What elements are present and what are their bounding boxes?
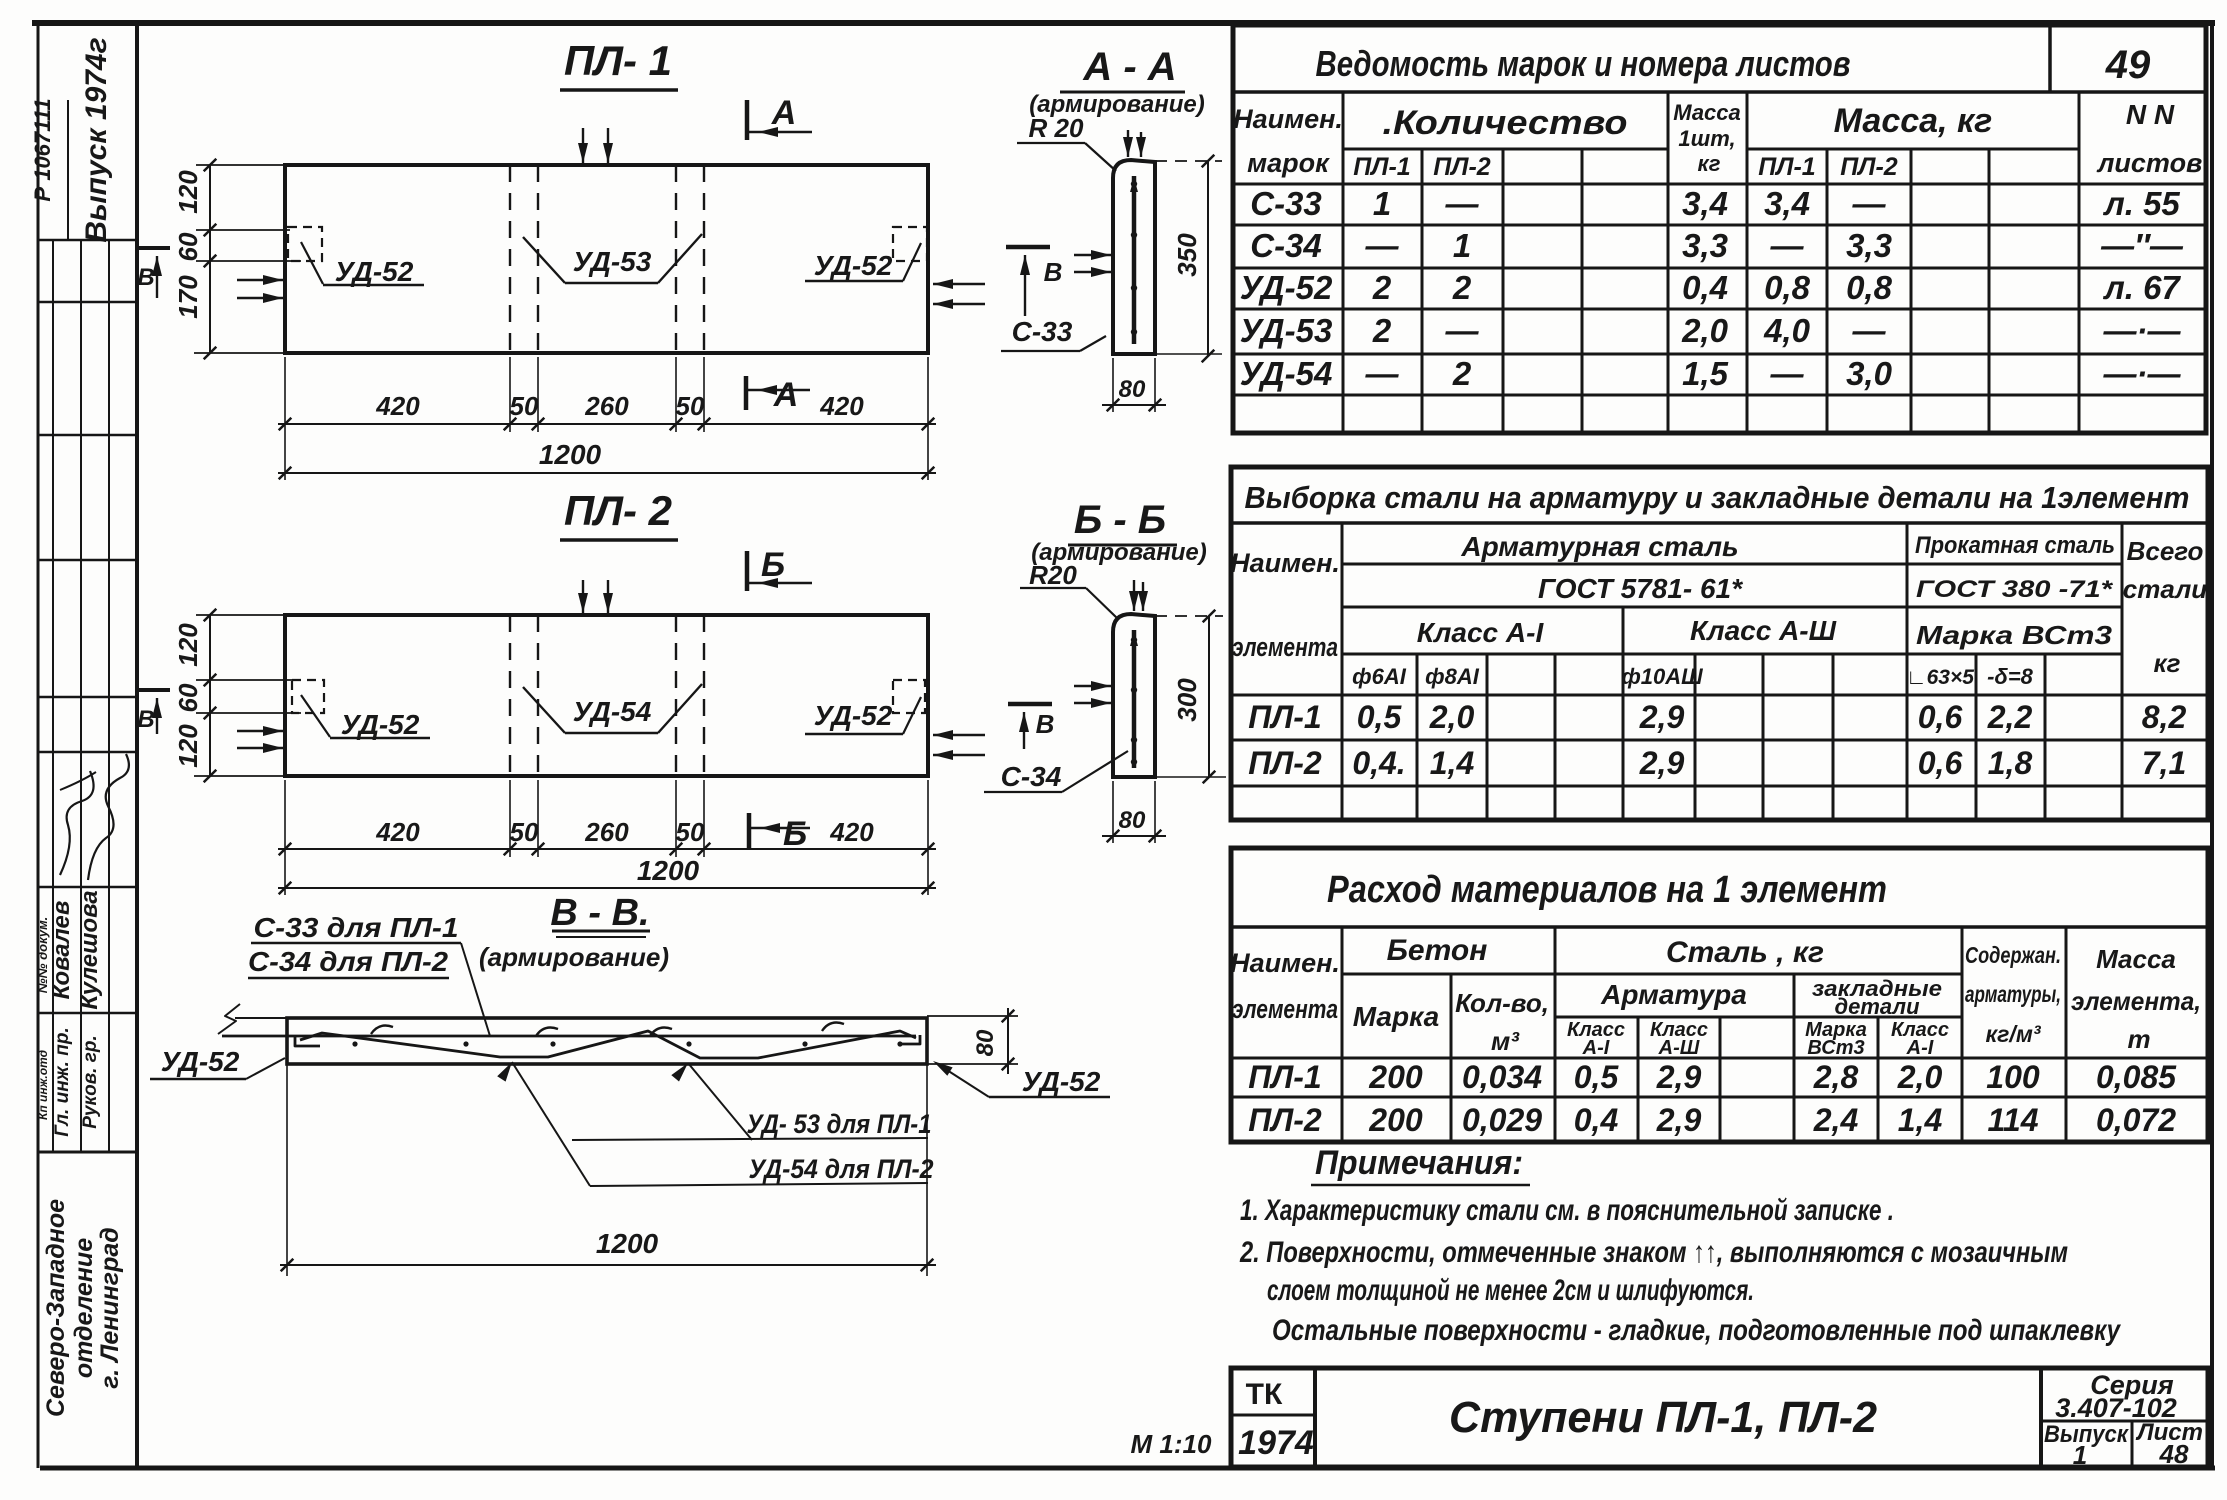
svg-text:А-I: А-I: [1582, 1037, 1610, 1059]
plan ПЛ-2 dashed joint lines: [509, 615, 511, 776]
section Б-Б dimension 80: [1112, 781, 1114, 843]
svg-text:—: —: [1852, 312, 1887, 349]
svg-text:60: 60: [173, 232, 203, 261]
plan ПЛ-1 dimension 1200: [284, 432, 286, 480]
svg-text:80: 80: [972, 1029, 999, 1056]
svg-text:0,072: 0,072: [2096, 1102, 2176, 1138]
svg-text:С-34 для ПЛ-2: С-34 для ПЛ-2: [248, 946, 448, 977]
svg-text:0,4.: 0,4.: [1352, 745, 1405, 781]
table 3 title row: [1231, 925, 2208, 929]
svg-text:ПЛ-2: ПЛ-2: [1433, 153, 1490, 181]
svg-text:т: т: [2127, 1024, 2150, 1054]
svg-text:7,1: 7,1: [2142, 745, 2186, 781]
svg-text:2,9: 2,9: [1639, 745, 1685, 781]
svg-text:—·—: —·—: [2103, 355, 2182, 392]
plan ПЛ-1 mosaic surface arrows left: [237, 279, 283, 281]
svg-text:R 20: R 20: [1029, 113, 1084, 143]
svg-text:2,4: 2,4: [1813, 1102, 1859, 1138]
svg-text:УД-54: УД-54: [1240, 355, 1333, 392]
table 2 body grid: [1231, 694, 2208, 697]
svg-text:420: 420: [829, 817, 874, 847]
svg-text:2: 2: [1372, 312, 1392, 349]
sheet frame left paper edge: [37, 23, 40, 1468]
svg-text:2,2: 2,2: [1987, 699, 2033, 735]
svg-text:ПЛ-1: ПЛ-1: [1758, 153, 1815, 181]
section А-А dashed extension top: [1155, 160, 1222, 162]
svg-text:48: 48: [2159, 1439, 2189, 1469]
svg-text:1200: 1200: [596, 1228, 659, 1259]
plan ПЛ-1 section mark А top: [745, 100, 750, 140]
svg-text:1,5: 1,5: [1682, 355, 1729, 392]
svg-text:Наимен.: Наимен.: [1230, 948, 1340, 978]
svg-text:Гл. инж. пр.: Гл. инж. пр.: [52, 1027, 73, 1136]
title block issue/sheet cells: [2131, 1421, 2134, 1467]
svg-text:Содержан.: Содержан.: [1965, 942, 2061, 968]
svg-text:А - А: А - А: [1082, 45, 1176, 89]
section Б-Б dimension 300: [1208, 616, 1210, 777]
plan ПЛ-1 embedded plate УД-52 right (dashed box): [893, 227, 927, 261]
svg-text:2,0: 2,0: [1681, 312, 1729, 349]
section Б-Б reinforcement bar С-34: [1132, 630, 1137, 768]
svg-text:80: 80: [1119, 807, 1146, 834]
section В-В top rebar line with dots: [222, 1035, 916, 1038]
svg-text:Всего: Всего: [2127, 536, 2204, 566]
section В-В callout leaders УД-53/УД-54: [512, 1062, 590, 1186]
svg-text:0,8: 0,8: [1764, 269, 1811, 306]
svg-text:Выпуск 1974г: Выпуск 1974г: [80, 37, 113, 242]
svg-text:3,4: 3,4: [1682, 185, 1728, 222]
svg-text:УД-52: УД-52: [814, 250, 893, 281]
svg-text:кг: кг: [2153, 648, 2180, 678]
title block series cell: [2039, 1368, 2043, 1467]
svg-text:А: А: [771, 94, 797, 132]
title block outer box: [1231, 1368, 2208, 1467]
svg-text:3,0: 3,0: [1846, 355, 1893, 392]
svg-text:Прокатная сталь: Прокатная сталь: [1915, 532, 2115, 559]
section А-А reinforcement bar С-33: [1132, 176, 1137, 344]
svg-text:г. Ленинград: г. Ленинград: [96, 1227, 124, 1388]
svg-text:С-33: С-33: [1012, 316, 1073, 347]
plan ПЛ-1 label УД-52 right with leader: [805, 280, 903, 282]
svg-text:1,4: 1,4: [1898, 1102, 1943, 1138]
table 2 header grid: [1341, 523, 1344, 820]
svg-text:200: 200: [1368, 1102, 1423, 1138]
svg-text:Масса: Масса: [2096, 944, 2176, 974]
table 3 body grid: [1231, 1057, 2208, 1060]
section В-В break mark left: [235, 1017, 287, 1019]
sheet frame bottom border: [40, 1466, 2215, 1471]
svg-text:детали: детали: [1834, 994, 1920, 1019]
svg-text:0,8: 0,8: [1846, 269, 1893, 306]
svg-text:Сталь , кг: Сталь , кг: [1666, 936, 1824, 969]
svg-text:Б: Б: [783, 815, 807, 853]
svg-text:кг: кг: [1698, 151, 1721, 176]
svg-text:В: В: [137, 264, 154, 291]
svg-text:—: —: [1365, 355, 1400, 392]
table Выборка стали: outer border: [1231, 467, 2208, 820]
section А-А section mark В: [1006, 245, 1050, 250]
svg-text:УД-53: УД-53: [1240, 312, 1333, 349]
section А-А dimension 80: [1112, 358, 1114, 412]
svg-text:Масса, кг: Масса, кг: [1834, 102, 1993, 140]
svg-text:2,0: 2,0: [1897, 1059, 1943, 1095]
svg-text:49: 49: [2105, 43, 2151, 87]
svg-text:УД-53: УД-53: [573, 246, 652, 277]
svg-text:стали: стали: [2123, 574, 2208, 604]
svg-text:ПЛ-1: ПЛ-1: [1353, 153, 1410, 181]
svg-text:Класс А-Ш: Класс А-Ш: [1690, 615, 1837, 646]
svg-text:В: В: [1044, 257, 1063, 287]
section В-В end plate right: [898, 1035, 920, 1044]
svg-text:2: 2: [1452, 355, 1472, 392]
plan ПЛ-1 mosaic surface arrows right: [933, 283, 985, 285]
svg-text:С-34: С-34: [1250, 227, 1322, 264]
svg-text:ПЛ-1: ПЛ-1: [1248, 699, 1321, 735]
section В-В bent bar УД-53/УД-54: [300, 1031, 916, 1058]
stamp column vertical rules: [52, 240, 54, 1152]
svg-text:Марка: Марка: [1353, 1001, 1439, 1032]
plan ПЛ-2 embedded plate УД-52 right (dashed box): [893, 680, 925, 713]
svg-text:УД-52: УД-52: [335, 256, 414, 287]
svg-text:0,5: 0,5: [1357, 699, 1403, 735]
svg-text:Масса: Масса: [1673, 100, 1741, 125]
svg-text:Кол-во,: Кол-во,: [1455, 988, 1549, 1018]
svg-text:отделение: отделение: [70, 1238, 98, 1378]
svg-text:Расход материалов на 1 эл: Расход материалов на 1 элемент: [1327, 869, 1887, 911]
svg-text:—″—: —″—: [2100, 227, 2184, 264]
svg-text:R20: R20: [1029, 560, 1077, 590]
svg-text:элемента: элемента: [1232, 994, 1338, 1024]
svg-text:3,4: 3,4: [1764, 185, 1810, 222]
svg-text:ф6АI: ф6АI: [1352, 664, 1407, 689]
svg-text:УД-54: УД-54: [573, 696, 652, 727]
svg-text:Арматура: Арматура: [1600, 979, 1747, 1010]
svg-text:1: 1: [1453, 227, 1471, 264]
svg-text:50: 50: [510, 391, 539, 421]
svg-text:В: В: [137, 706, 154, 733]
svg-text:элемента: элемента: [1232, 632, 1338, 662]
section В-В slab outline: [287, 1018, 927, 1064]
plan ПЛ-2 slab outline: [285, 615, 928, 776]
svg-text:60: 60: [173, 683, 203, 712]
plan ПЛ-2 dimension 1200: [284, 857, 286, 895]
svg-text:Выборка стали на арматуру: Выборка стали на арматуру и закладные де…: [1245, 480, 2190, 515]
svg-text:114: 114: [1987, 1102, 2038, 1138]
svg-text:УД-52: УД-52: [341, 709, 420, 740]
section В-В leader from С labels: [461, 943, 490, 1036]
plan ПЛ-1 section mark А bottom: [744, 376, 749, 410]
svg-text:420: 420: [375, 391, 420, 421]
plan ПЛ-2 label УД-54 with bent-bar leader: [523, 687, 565, 733]
section В-В dimension 80 right: [927, 1015, 1018, 1017]
svg-text:ф8АI: ф8АI: [1425, 664, 1480, 689]
svg-text:50: 50: [676, 391, 705, 421]
svg-text:2. Поверхности, отмеченные: 2. Поверхности, отмеченные знаком ↑↑, вы…: [1239, 1236, 2068, 1269]
svg-text:С-33: С-33: [1250, 185, 1322, 222]
section Б-Б mosaic arrows top: [1133, 580, 1135, 611]
svg-text:1. Характеристику стали см.: 1. Характеристику стали см. в пояснитель…: [1240, 1194, 1894, 1227]
plan ПЛ-1 section mark В on frame: [139, 246, 170, 250]
svg-text:—: —: [1770, 355, 1805, 392]
svg-text:200: 200: [1368, 1059, 1423, 1095]
svg-text:—: —: [1445, 185, 1480, 222]
table Ведомость марок и номера листов: outer border: [1233, 25, 2206, 433]
section В-В end plate left: [295, 1036, 320, 1046]
svg-text:ГОСТ 380 -71*: ГОСТ 380 -71*: [1916, 576, 2114, 603]
svg-text:Кулешова: Кулешова: [76, 890, 103, 1009]
table 2 title row: [1231, 521, 2208, 525]
svg-text:0,4: 0,4: [1574, 1102, 1619, 1138]
svg-text:120: 120: [173, 724, 203, 768]
svg-text:2,9: 2,9: [1656, 1102, 1702, 1138]
svg-text:170: 170: [173, 275, 203, 319]
svg-text:420: 420: [375, 817, 420, 847]
svg-text:1: 1: [2073, 1440, 2087, 1470]
svg-text:1,4: 1,4: [1430, 745, 1475, 781]
svg-text:ГОСТ 5781- 61*: ГОСТ 5781- 61*: [1538, 573, 1743, 604]
svg-text:А-Ш: А-Ш: [1658, 1037, 1700, 1059]
plan ПЛ-2 label УД-52 left with leader: [301, 695, 330, 737]
plan ПЛ-2 section mark Б top: [745, 551, 750, 591]
stamp column horizontal rules: [38, 239, 137, 242]
svg-text:80: 80: [1119, 376, 1146, 403]
svg-text:Бетон: Бетон: [1387, 934, 1488, 967]
svg-text:слоем толщиной не менее 2с: слоем толщиной не менее 2см и шлифуются.: [1267, 1274, 1754, 1307]
svg-text:N N: N N: [2126, 99, 2175, 130]
svg-text:ПЛ-1: ПЛ-1: [1248, 1059, 1321, 1095]
svg-text:2: 2: [1452, 269, 1472, 306]
plan ПЛ-1 label УД-52 left with leader: [301, 242, 323, 284]
svg-text:3,3: 3,3: [1682, 227, 1728, 264]
svg-text:листов: листов: [2096, 148, 2203, 178]
svg-text:Р 1067111: Р 1067111: [30, 98, 55, 201]
svg-text:-δ=8: -δ=8: [1987, 664, 2034, 689]
svg-text:Марка ВСт3: Марка ВСт3: [1916, 620, 2113, 650]
svg-text:2: 2: [1372, 269, 1392, 306]
svg-text:8,2: 8,2: [2142, 699, 2187, 735]
svg-text:3,3: 3,3: [1846, 227, 1892, 264]
svg-text:50: 50: [676, 817, 705, 847]
svg-text:А-I: А-I: [1906, 1037, 1934, 1059]
stamp signature scribbles: [60, 771, 94, 875]
svg-text:В - В.: В - В.: [550, 892, 649, 934]
section В-В stirrup hooks: [371, 1026, 393, 1034]
svg-text:300: 300: [1172, 678, 1202, 722]
title block ТК cell: [1313, 1368, 1317, 1467]
svg-text:ПЛ- 1: ПЛ- 1: [564, 37, 672, 84]
svg-text:УД-52: УД-52: [1022, 1066, 1101, 1097]
svg-text:Примечания:: Примечания:: [1315, 1144, 1523, 1182]
section А-А dimension 350: [1207, 161, 1209, 356]
svg-text:—·—: —·—: [2103, 312, 2182, 349]
svg-text:0,6: 0,6: [1918, 699, 1963, 735]
table 3 header grid: [1341, 927, 1344, 1142]
svg-text:2,9: 2,9: [1639, 699, 1685, 735]
svg-text:Б: Б: [761, 546, 785, 584]
plan ПЛ-2 embedded plate УД-52 left (dashed box): [292, 680, 324, 713]
section А-А mosaic arrows top: [1127, 130, 1129, 157]
svg-text:1200: 1200: [539, 439, 602, 470]
svg-text:0,085: 0,085: [2096, 1059, 2177, 1095]
svg-text:Остальные поверхности - глад: Остальные поверхности - гладкие, подгото…: [1272, 1314, 2121, 1347]
plan ПЛ-2 dimension chain 420/50/260/50/420: [284, 780, 286, 857]
svg-text:Кп инж.отд: Кп инж.отд: [36, 1050, 50, 1120]
sheet frame right border: [2210, 23, 2214, 1468]
svg-text:2,8: 2,8: [1813, 1059, 1859, 1095]
svg-text:М 1:10: М 1:10: [1131, 1429, 1212, 1459]
plan ПЛ-2 mosaic surface arrows right: [933, 734, 985, 736]
svg-text:—: —: [1445, 312, 1480, 349]
svg-text:Б - Б: Б - Б: [1074, 498, 1166, 542]
svg-text:В: В: [1036, 709, 1055, 739]
svg-text:50: 50: [510, 817, 539, 847]
plan ПЛ-2 label УД-52 right with leader: [805, 733, 903, 735]
svg-text:арматуры,: арматуры,: [1965, 981, 2061, 1007]
svg-text:1200: 1200: [637, 855, 700, 886]
svg-text:м³: м³: [1491, 1026, 1520, 1056]
table Расход материалов: outer border: [1231, 848, 2208, 1142]
svg-text:Наимен.: Наимен.: [1233, 104, 1343, 134]
svg-text:1,8: 1,8: [1988, 745, 2033, 781]
svg-text:—: —: [1770, 227, 1805, 264]
svg-text:ПЛ- 2: ПЛ- 2: [564, 487, 672, 534]
svg-text:120: 120: [173, 170, 203, 214]
svg-text:УД-52: УД-52: [1240, 269, 1333, 306]
svg-text:1: 1: [1373, 185, 1391, 222]
svg-text:(армирование): (армирование): [479, 942, 669, 972]
svg-text:0,6: 0,6: [1918, 745, 1963, 781]
svg-text:УД-54 для ПЛ-2: УД-54 для ПЛ-2: [749, 1154, 934, 1184]
svg-text:120: 120: [173, 623, 203, 667]
svg-text:А: А: [773, 376, 799, 414]
svg-text:л. 67: л. 67: [2102, 269, 2181, 306]
svg-text:ПЛ-2: ПЛ-2: [1248, 1102, 1322, 1138]
svg-text:260: 260: [584, 817, 629, 847]
svg-text:марок: марок: [1247, 148, 1330, 178]
section Б-Б mosaic arrows left: [1074, 685, 1111, 687]
svg-text:Северо-Западное: Северо-Западное: [42, 1199, 70, 1417]
plan ПЛ-1 embedded plate УД-52 left (dashed box): [288, 227, 322, 261]
plan ПЛ-2 mosaic surface arrows left: [237, 730, 283, 732]
svg-text:Ковалев: Ковалев: [48, 901, 75, 1000]
section А-А profile outline: [1113, 160, 1155, 354]
svg-text:0,029: 0,029: [1462, 1102, 1542, 1138]
svg-text:2,9: 2,9: [1656, 1059, 1702, 1095]
plan ПЛ-1 dashed joint lines: [509, 165, 511, 353]
svg-text:100: 100: [1986, 1059, 2040, 1095]
svg-text:ТК: ТК: [1246, 1378, 1283, 1411]
svg-text:4,0: 4,0: [1763, 312, 1811, 349]
svg-text:ф10АШ: ф10АШ: [1621, 664, 1703, 689]
section Б-Б profile outline: [1113, 614, 1155, 777]
table 1 header grid: [1343, 148, 1668, 151]
table 1 title row: [1233, 90, 2206, 94]
svg-text:Ведомость марок и номера: Ведомость марок и номера листов: [1316, 43, 1851, 84]
svg-text:ПЛ-2: ПЛ-2: [1840, 153, 1897, 181]
plan ПЛ-2 mosaic surface arrows top: [582, 580, 584, 613]
svg-text:С-33 для ПЛ-1: С-33 для ПЛ-1: [254, 912, 459, 943]
section Б-Б dashed extension top: [1155, 615, 1223, 617]
sheet frame inner left border: [135, 23, 139, 1468]
svg-text:ВСт3: ВСт3: [1807, 1037, 1864, 1059]
svg-text:С-34: С-34: [1001, 761, 1062, 792]
plan ПЛ-2 left dimension 120/60/120: [209, 615, 211, 776]
svg-text:1шт,: 1шт,: [1678, 126, 1735, 151]
section А-А mosaic arrows left: [1074, 254, 1111, 256]
svg-text:ПЛ-2: ПЛ-2: [1248, 745, 1322, 781]
svg-text:—: —: [1365, 227, 1400, 264]
svg-text:2,0: 2,0: [1429, 699, 1475, 735]
svg-text:Наимен.: Наимен.: [1230, 548, 1340, 578]
svg-text:—: —: [1852, 185, 1887, 222]
plan ПЛ-2 section mark Б bottom: [747, 813, 752, 848]
plan ПЛ-1 left dimension 120/60/170: [209, 165, 211, 353]
svg-text:УД-52: УД-52: [161, 1046, 240, 1077]
plan ПЛ-1 slab outline: [285, 165, 928, 353]
svg-text:0,034: 0,034: [1462, 1059, 1542, 1095]
svg-text:420: 420: [819, 391, 864, 421]
svg-text:Класс А-I: Класс А-I: [1417, 617, 1545, 648]
section Б-Б section mark В: [1008, 702, 1052, 707]
table 1 body grid: [1342, 184, 1345, 433]
svg-text:1974: 1974: [1238, 1424, 1314, 1462]
svg-text:0,5: 0,5: [1574, 1059, 1620, 1095]
svg-text:УД- 53 для ПЛ-1: УД- 53 для ПЛ-1: [747, 1109, 932, 1139]
plan ПЛ-1 mosaic surface arrows top: [582, 128, 584, 163]
svg-text:УД-52: УД-52: [814, 700, 893, 731]
stamp column top section divider: [67, 100, 69, 240]
svg-text:кг/м³: кг/м³: [1986, 1021, 2042, 1047]
svg-text:л. 55: л. 55: [2102, 185, 2180, 222]
svg-text:∟63×5: ∟63×5: [1906, 666, 1974, 689]
svg-text:260: 260: [584, 391, 629, 421]
sheet frame top border: [32, 20, 2215, 26]
section В-В dimension 1200: [286, 1064, 288, 1276]
svg-text:350: 350: [1172, 233, 1202, 277]
plan ПЛ-2 section mark В on frame: [139, 688, 170, 692]
svg-text:Ступени ПЛ-1, ПЛ-2: Ступени ПЛ-1, ПЛ-2: [1449, 1393, 1878, 1442]
svg-text:Руков. гр.: Руков. гр.: [80, 1035, 101, 1129]
plan ПЛ-1 dimension chain 420/50/260/50/420: [284, 357, 286, 432]
plan ПЛ-1 label УД-53 with bent-bar leader: [523, 237, 565, 283]
svg-text:.Количество: .Количество: [1383, 104, 1628, 142]
svg-text:элемента,: элемента,: [2071, 986, 2201, 1016]
svg-text:0,4: 0,4: [1682, 269, 1728, 306]
svg-text:Арматурная сталь: Арматурная сталь: [1460, 531, 1738, 562]
